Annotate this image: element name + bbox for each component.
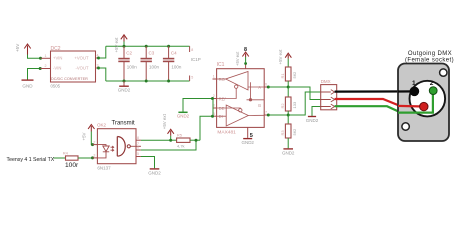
ground GND2 under C2 <box>123 81 125 86</box>
supply +5V ext arrow over C2 <box>121 35 127 42</box>
wire to DI <box>200 116 213 140</box>
svg-text:+5V ext: +5V ext <box>235 51 240 66</box>
wire bottom rail <box>106 80 190 82</box>
wire RE to GND2 <box>183 99 213 112</box>
XLR mounting hole top right <box>440 69 447 76</box>
svg-text:5: 5 <box>137 152 139 156</box>
junction rail C3 bottom <box>145 80 148 83</box>
svg-text:2: 2 <box>45 64 47 68</box>
junction -VOUT <box>97 67 100 70</box>
svg-text:4,7k: 4,7k <box>177 144 185 149</box>
junction R1/R2/A <box>287 86 290 89</box>
svg-text:2: 2 <box>93 140 95 144</box>
svg-text:GND2: GND2 <box>118 87 131 92</box>
svg-text:R1: R1 <box>280 73 285 79</box>
pin stub DC2 -VOUT <box>96 67 99 69</box>
svg-text:8: 8 <box>191 48 193 52</box>
junction R2/R3/B <box>287 114 290 117</box>
ground GND2 under IC1 <box>243 138 252 140</box>
junction A pin <box>267 86 270 89</box>
svg-text:6N137: 6N137 <box>97 166 111 171</box>
svg-text:1: 1 <box>412 80 416 87</box>
connector pin 3 chevron <box>321 104 335 109</box>
svg-text:Transmit: Transmit <box>112 121 135 127</box>
supply +5V ext arrow at R5 <box>168 129 174 136</box>
svg-text:R2: R2 <box>280 103 285 109</box>
cable red wire to XLR pin 3 <box>335 99 424 107</box>
svg-text:+VOUT: +VOUT <box>74 56 89 61</box>
resistor R4 <box>66 156 79 160</box>
wire teensy to R4 <box>54 157 66 159</box>
junction rail C2 bottom <box>123 80 126 83</box>
svg-text:IC1P: IC1P <box>191 57 201 62</box>
svg-text:+5V ext: +5V ext <box>162 113 167 129</box>
svg-text:+VIN: +VIN <box>53 56 62 61</box>
optocoupler OK2 box <box>97 129 136 164</box>
capacitor C2 <box>118 46 129 81</box>
svg-text:GND2: GND2 <box>282 150 295 155</box>
svg-text:R3: R3 <box>280 130 285 136</box>
capacitor C4 <box>163 46 174 81</box>
svg-text:GND2: GND2 <box>148 170 161 175</box>
svg-text:DC2: DC2 <box>51 46 61 52</box>
power part IC1P pin 5 <box>189 76 191 82</box>
power part IC1P pin 8 <box>189 46 191 52</box>
svg-text:1: 1 <box>45 54 47 58</box>
svg-text:+5V: +5V <box>15 43 20 52</box>
svg-text:8: 8 <box>244 47 247 53</box>
svg-text:C4: C4 <box>171 50 177 55</box>
pin stub OK2 pin6 <box>136 149 141 151</box>
pin stub OK2 pin7 <box>136 145 141 147</box>
junction B pin <box>267 114 270 117</box>
XLR mounting hole bottom left <box>402 123 409 130</box>
svg-text:133: 133 <box>292 101 297 108</box>
wire top rail <box>106 45 190 47</box>
connector pin 1 chevron <box>321 90 335 95</box>
svg-text:(Female socket): (Female socket) <box>405 57 454 63</box>
supply +5V ext arrow at IC1 <box>242 52 248 57</box>
XLR socket plate <box>398 64 449 142</box>
svg-text:OK2: OK2 <box>97 123 107 128</box>
svg-text:100n: 100n <box>127 64 138 69</box>
connector pin 2 chevron <box>321 97 335 102</box>
svg-text:0505: 0505 <box>51 84 61 89</box>
svg-text:6: 6 <box>137 146 139 150</box>
connector DMX <box>321 85 337 110</box>
resistor R5 <box>171 139 177 141</box>
svg-text:Outgoing DMX: Outgoing DMX <box>408 51 452 57</box>
pin stub DC2 pin2 <box>40 68 50 70</box>
wire +5V to DC2 pin1 <box>28 55 41 59</box>
optocoupler LED <box>97 145 113 158</box>
pin stub DC2 +VOUT <box>96 57 99 59</box>
pin stub DC2 pin1 <box>41 57 51 59</box>
junction arrow R5 <box>169 139 172 142</box>
wire +VOUT to top rail <box>99 46 106 58</box>
resistor R1 <box>285 67 291 81</box>
junction rail C4 top <box>167 45 170 48</box>
wire tie RE to DI <box>212 99 214 117</box>
svg-text:2: 2 <box>430 80 434 87</box>
pin stub OK2 pin2 <box>93 144 98 146</box>
svg-text:3: 3 <box>93 154 95 158</box>
svg-text:5: 5 <box>191 76 193 80</box>
junction rail C2 top <box>123 45 126 48</box>
svg-text:Teensy 4 1 Serial TX: Teensy 4 1 Serial TX <box>7 157 55 163</box>
ground GND2 under connector <box>308 116 316 118</box>
pin stub OK2 pin5 <box>136 156 141 158</box>
resistor R2 <box>287 87 289 97</box>
svg-text:GND2: GND2 <box>241 140 254 145</box>
ic IC1 internals receiver triangle <box>217 72 265 127</box>
XLR barrel circle <box>410 81 446 117</box>
junction +VOUT <box>97 57 100 60</box>
ic IC1 vcc pin 8 <box>245 64 247 69</box>
svg-text:B: B <box>258 103 261 108</box>
wire OK2 pin5 to GND2 <box>141 157 155 169</box>
wire B to connector top pin <box>288 92 321 115</box>
svg-text:R5: R5 <box>177 133 183 138</box>
cable ends over plate <box>398 90 414 92</box>
ic IC1 gnd pin 5 <box>247 127 249 137</box>
junction DC2 pin1 <box>39 57 42 60</box>
svg-text:1: 1 <box>213 75 215 79</box>
svg-text:562: 562 <box>292 128 297 135</box>
pin stub OK2 pin3 <box>93 157 98 159</box>
wire GND2 to connector bottom pin <box>312 107 321 117</box>
junction DC2 pin2 <box>39 67 42 70</box>
junction rail C3 top <box>145 45 148 48</box>
svg-text:DC/DC CONVERTER: DC/DC CONVERTER <box>51 77 88 81</box>
svg-text:C2: C2 <box>126 50 132 55</box>
svg-text:+5V ext: +5V ext <box>114 37 119 53</box>
ground GND2 under R3 <box>283 148 293 150</box>
junction DI pin <box>211 115 214 118</box>
wire R4 to OK2 pin3 <box>78 157 93 159</box>
dc/dc converter DC2 <box>51 51 96 82</box>
svg-text:100n: 100n <box>149 64 160 69</box>
svg-text:6: 6 <box>265 83 267 87</box>
svg-text:+5V ext: +5V ext <box>278 49 283 65</box>
ground GND2 green bar <box>178 111 187 113</box>
ic MAX481 IC1 box <box>217 69 265 128</box>
svg-text:R4: R4 <box>63 151 69 156</box>
wire -VOUT to bottom rail <box>99 68 106 81</box>
junction RE pin <box>211 97 214 100</box>
svg-text:C3: C3 <box>149 50 155 55</box>
supply +5V symbol left <box>24 44 30 55</box>
wire A to resistor column <box>268 86 288 88</box>
svg-text:GND2: GND2 <box>306 118 319 123</box>
XLR pin 2 <box>429 87 437 95</box>
wire +5V to OK2 pin2 <box>91 132 93 145</box>
wire OK2 pin8 to +5Vext junction <box>141 139 171 141</box>
XLR pin 3 <box>420 102 428 110</box>
svg-text:IC1: IC1 <box>217 62 225 68</box>
svg-text:+5V: +5V <box>82 132 87 140</box>
resistor R3 <box>287 115 289 124</box>
wire GND to DC2 pin2 <box>28 69 41 80</box>
ground GND2 under OK2 <box>150 168 160 170</box>
capacitor C3 <box>141 46 152 81</box>
ground GND left <box>22 79 34 81</box>
XLR pin 1 <box>410 87 420 97</box>
ic IC1 right pin stubs <box>264 86 268 88</box>
svg-text:GND2: GND2 <box>177 113 190 118</box>
supply +5V arrow at OK2 <box>88 125 94 132</box>
wire OK2 pin6 to R5 net <box>141 140 196 150</box>
svg-text:DMX: DMX <box>321 79 331 84</box>
cable black wire to XLR pin 1 <box>335 90 415 92</box>
svg-text:GND: GND <box>22 84 33 89</box>
svg-text:-VIN: -VIN <box>53 66 61 71</box>
ic IC1 left pin stubs <box>213 78 217 80</box>
svg-text:-VOUT: -VOUT <box>75 66 88 71</box>
optocoupler gate <box>117 137 136 157</box>
svg-text:100n: 100n <box>171 64 182 69</box>
svg-text:562: 562 <box>292 71 297 78</box>
junction rail C4 bottom <box>167 80 170 83</box>
supply +5V ext arrow over R1 <box>285 53 291 59</box>
svg-text:8: 8 <box>137 136 139 140</box>
wire B to resistor column <box>268 114 288 116</box>
pin stub OK2 pin8 <box>136 139 141 141</box>
cable green wire to XLR pin 2 <box>335 91 433 113</box>
svg-text:MAX481: MAX481 <box>217 129 236 135</box>
wire A to connector middle pin <box>288 87 321 100</box>
junction R5 right <box>195 139 198 142</box>
svg-text:7: 7 <box>265 111 267 115</box>
svg-text:100r: 100r <box>65 162 79 169</box>
